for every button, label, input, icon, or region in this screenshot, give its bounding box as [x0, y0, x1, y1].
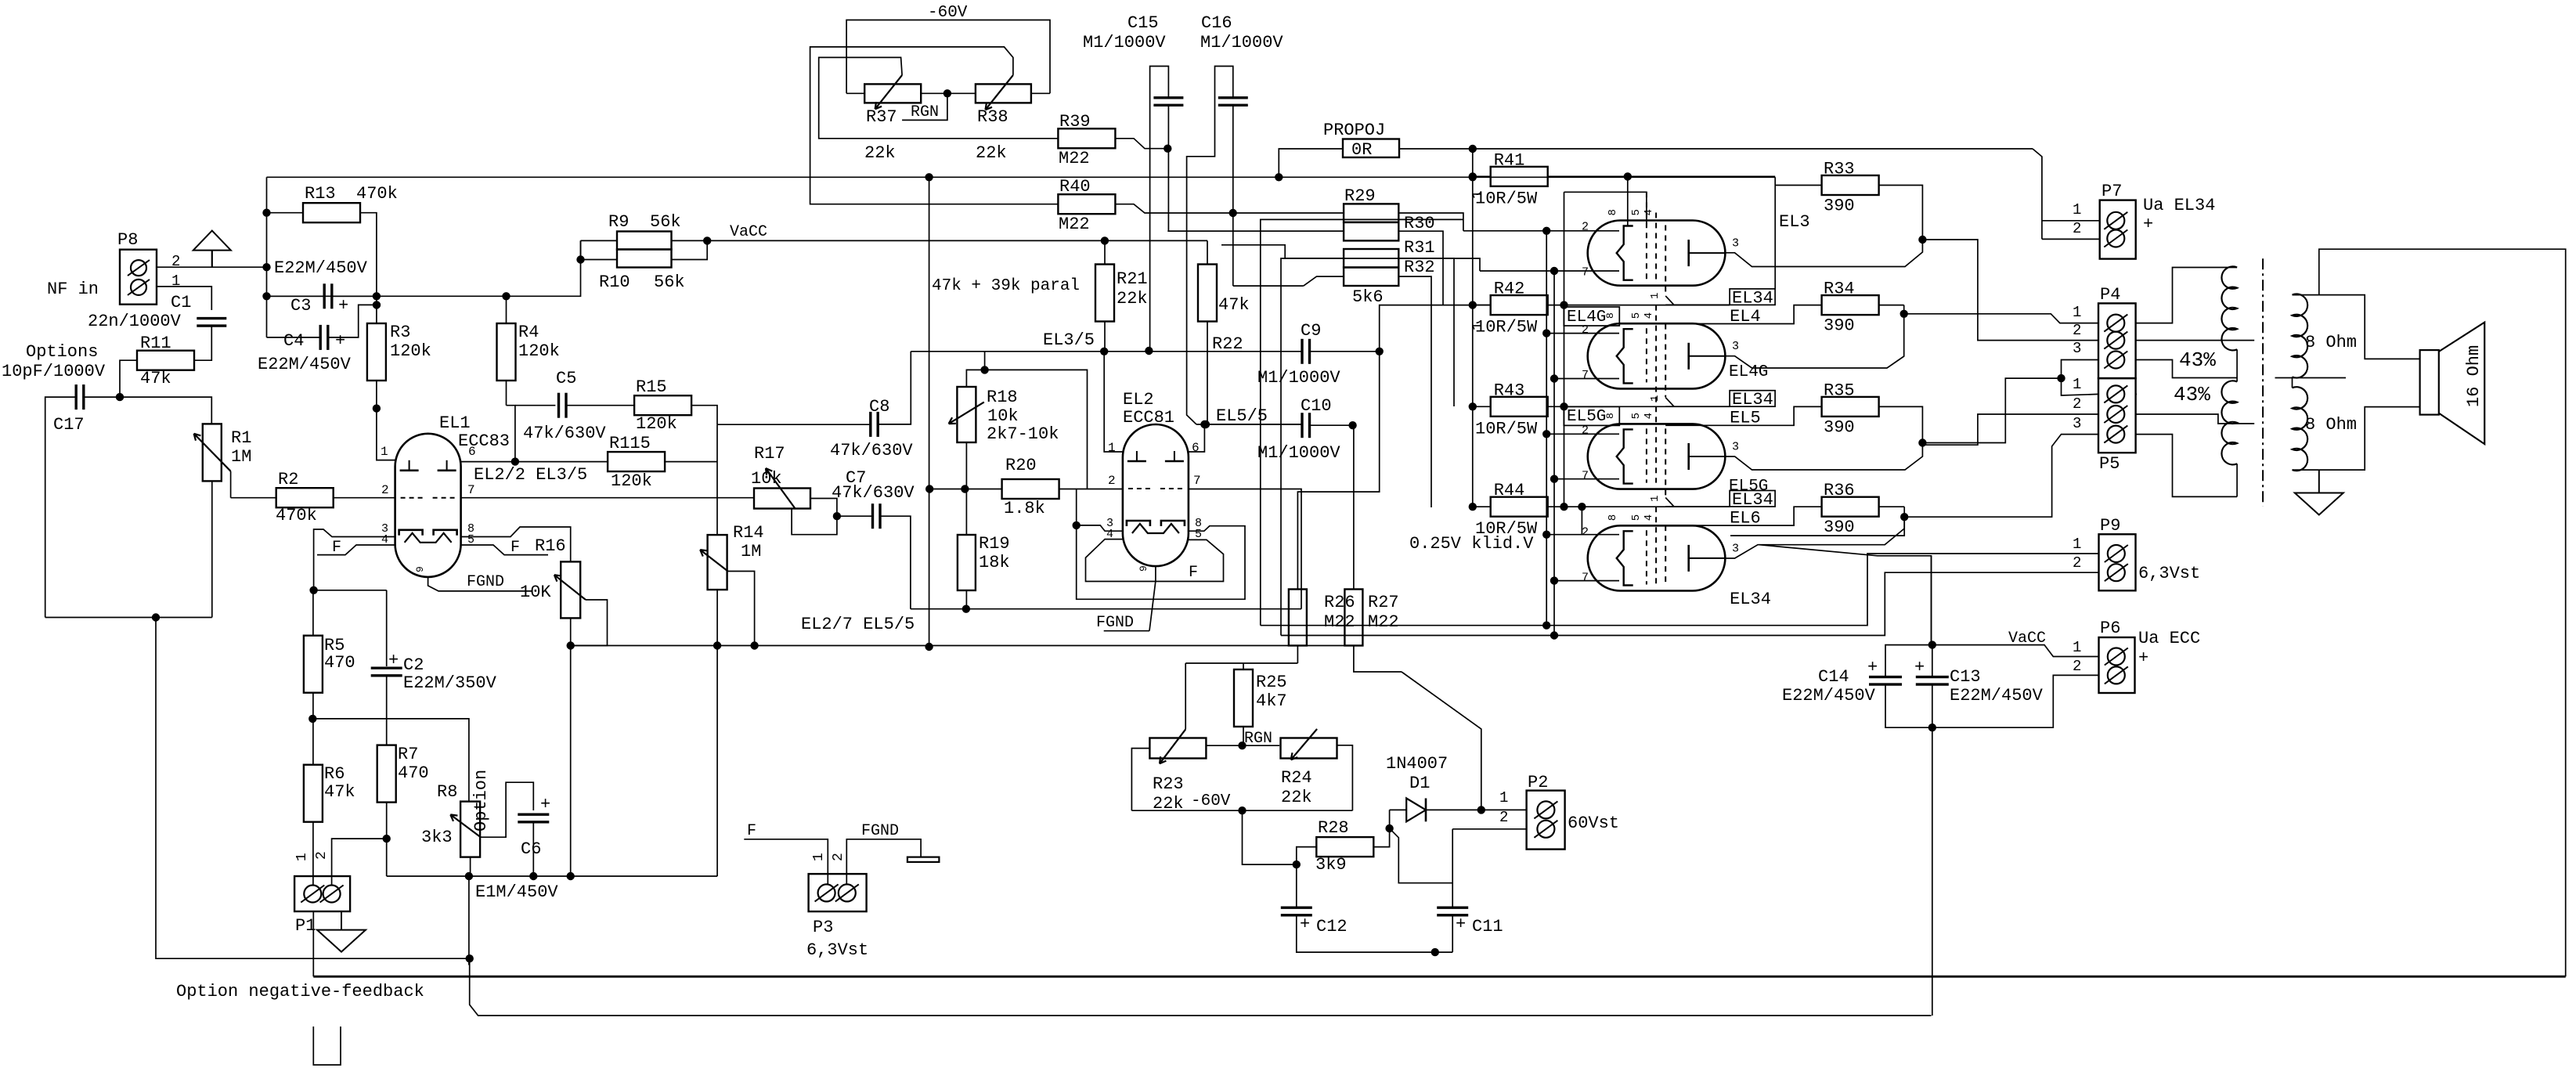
svg-text:22k: 22k	[1281, 788, 1312, 807]
wire node to R1	[120, 397, 211, 424]
svg-text:M1/1000V: M1/1000V	[1200, 33, 1283, 52]
resistor R6	[304, 765, 323, 822]
wire R13 right	[360, 213, 377, 297]
tube EL6 EL34	[1588, 525, 1726, 590]
resistor R36	[1822, 497, 1879, 517]
svg-text:47k: 47k	[324, 782, 355, 802]
svg-text:6,3Vst: 6,3Vst	[806, 940, 868, 960]
svg-text:M22: M22	[1059, 215, 1090, 234]
resistor R40	[1058, 194, 1115, 214]
svg-text:C1: C1	[171, 293, 191, 312]
svg-text:1M: 1M	[231, 447, 251, 467]
EL3 pin7 wire	[1480, 270, 1619, 272]
junction	[1901, 514, 1908, 521]
wire EL2 pin8 box	[1077, 525, 1245, 599]
connector P2	[1527, 791, 1565, 850]
svg-text:60Vst: 60Vst	[1568, 814, 1619, 833]
wire R32 right	[1398, 276, 1431, 507]
svg-text:22n/1000V: 22n/1000V	[88, 312, 182, 331]
potentiometer R23	[1149, 738, 1206, 759]
wire R27 bottom	[1354, 646, 1402, 672]
junction	[1239, 807, 1246, 814]
wire C5 left	[515, 405, 556, 406]
wire C16 to R32	[1233, 285, 1304, 287]
svg-text:R29: R29	[1344, 186, 1376, 206]
wire EL1 pin5 F	[461, 545, 548, 555]
svg-text:C12: C12	[1316, 917, 1348, 936]
svg-text:C14: C14	[1818, 667, 1849, 687]
svg-text:1: 1	[1649, 395, 1661, 402]
wire EL2 pin4 box	[1086, 539, 1224, 582]
capacitor C14	[1869, 676, 1902, 678]
svg-text:1: 1	[1108, 441, 1116, 455]
wire R34 right	[1879, 305, 1904, 306]
wire EL1 pin3	[314, 529, 395, 590]
svg-text:47k: 47k	[1218, 295, 1250, 315]
svg-text:10R/5W: 10R/5W	[1475, 419, 1538, 438]
wire C13 stem bottom	[1932, 685, 1933, 728]
junction	[1469, 173, 1476, 180]
wire EL2 pin1	[1104, 352, 1123, 452]
EL6 pin7 wire	[1554, 580, 1619, 582]
wire R30 right	[1398, 231, 1443, 305]
junction	[1624, 173, 1631, 180]
resistor R31	[1344, 249, 1398, 268]
junction	[1101, 237, 1108, 244]
junction	[1550, 632, 1557, 639]
svg-text:EL3: EL3	[1779, 212, 1810, 232]
wire R4 to pin6	[507, 406, 515, 462]
resistor R5	[304, 636, 323, 693]
resistor R10	[617, 250, 672, 268]
resistor R32	[1344, 268, 1398, 287]
wire P5-2 feed	[1924, 414, 2098, 445]
svg-text:2: 2	[831, 853, 846, 861]
wire P8 pin2	[157, 266, 267, 268]
svg-text:470k: 470k	[276, 506, 317, 525]
svg-text:47k/630V: 47k/630V	[832, 483, 915, 503]
svg-text:120k: 120k	[518, 341, 560, 361]
capacitor C9	[1301, 339, 1303, 364]
wire grid upper 1	[1665, 304, 1730, 305]
potentiometer R17	[754, 489, 810, 509]
svg-text:R40: R40	[1059, 177, 1091, 197]
svg-text:7: 7	[1193, 474, 1201, 488]
capacitor C13	[1916, 676, 1949, 678]
wire R40 right	[1115, 204, 1232, 213]
svg-text:3: 3	[1732, 237, 1739, 251]
junction	[1919, 439, 1926, 446]
wire R18 to pin1	[985, 370, 1088, 489]
connector P8	[120, 250, 157, 305]
svg-text:+: +	[1300, 915, 1310, 934]
B+ feed diag	[1759, 545, 1932, 645]
anode rail	[267, 176, 1776, 178]
wire R44 line	[1548, 506, 1730, 507]
svg-text:1N4007: 1N4007	[1386, 754, 1448, 774]
wire EL2 pin3	[1077, 525, 1123, 531]
wire node to R8	[312, 719, 469, 802]
resistor R9	[617, 232, 672, 250]
junction	[567, 642, 574, 649]
svg-text:R2: R2	[278, 470, 298, 489]
resistor R115	[608, 452, 665, 471]
junction	[833, 513, 840, 520]
P9 wire 2	[1281, 572, 2099, 635]
wire R1 wiper	[230, 471, 232, 498]
wire R41 line	[1548, 175, 1776, 177]
EL6 anode wire	[1725, 517, 1904, 558]
svg-text:M1/1000V: M1/1000V	[1083, 33, 1166, 52]
junction	[1431, 948, 1438, 955]
wire to P4-1	[1904, 314, 2098, 323]
svg-text:4: 4	[1643, 514, 1655, 521]
junction	[1919, 236, 1926, 243]
svg-text:2: 2	[2073, 220, 2081, 237]
wire R37 left	[846, 92, 864, 94]
potentiometer R1	[203, 424, 222, 481]
wire R22 top	[1207, 240, 1208, 264]
tube EL2	[1123, 424, 1189, 566]
wire B+ down	[1931, 556, 1932, 645]
capacitor C8	[869, 412, 871, 437]
wire C15 bottom	[1168, 105, 1344, 231]
resistor R28	[1316, 837, 1373, 857]
secondary bottom	[2293, 407, 2420, 471]
resistor R29	[1344, 204, 1398, 222]
wire R3 bottom	[376, 381, 377, 409]
junction	[373, 405, 380, 412]
wire C13 to bus	[1932, 727, 1933, 1016]
svg-text:ECC81: ECC81	[1123, 408, 1174, 428]
jumper P4-3 P5-1	[2062, 360, 2099, 396]
wire grid upper 2	[1665, 406, 1730, 407]
wire C3C4 left	[266, 213, 268, 337]
svg-text:7: 7	[1582, 469, 1589, 482]
svg-text:R23: R23	[1153, 774, 1184, 794]
wire rail to R9R10	[507, 240, 581, 296]
grid g3 dash EL4	[1665, 324, 1666, 398]
svg-text:Options: Options	[26, 342, 98, 362]
wire C16 top	[1187, 67, 1233, 425]
svg-text:8 Ohm: 8 Ohm	[2305, 333, 2357, 352]
svg-text:390: 390	[1824, 417, 1855, 437]
wire to P4-2	[1922, 240, 2098, 341]
capacitor C16	[1218, 96, 1248, 99]
svg-text:1: 1	[2073, 376, 2081, 393]
svg-text:PROPOJ: PROPOJ	[1323, 121, 1385, 140]
wire R15 right	[691, 406, 717, 425]
wire R31 right	[1398, 258, 1454, 406]
FGND underline	[1104, 630, 1149, 632]
svg-text:C5: C5	[556, 369, 576, 388]
capacitor C10	[1301, 413, 1303, 438]
junction bus	[713, 642, 720, 649]
resistor R3	[367, 323, 386, 381]
svg-text:-60V: -60V	[1191, 792, 1231, 810]
wire R42 line	[1548, 305, 1730, 306]
wire R29 right	[1398, 213, 1463, 231]
wire EL5 to jumper	[1922, 378, 2061, 442]
wire C10 right	[1309, 424, 1352, 426]
capacitor C3	[323, 283, 326, 308]
svg-text:Option negative-feedback: Option negative-feedback	[176, 982, 424, 1001]
box EL34 label 2	[1730, 391, 1775, 407]
bottom node wire	[387, 875, 718, 877]
wire C7 left	[837, 515, 873, 517]
svg-text:5: 5	[1630, 312, 1643, 319]
wire C4 left	[267, 337, 321, 338]
wire zig C11	[1390, 828, 1453, 883]
wire R16 bottom	[570, 619, 572, 646]
svg-text:C8: C8	[869, 397, 889, 417]
wire EL2 pin6	[1189, 424, 1205, 452]
wire D1 to P2 pin1	[1481, 809, 1527, 810]
wire R24 right	[1337, 745, 1353, 810]
svg-text:EL5G: EL5G	[1567, 408, 1606, 426]
wire R9 right	[672, 240, 708, 241]
svg-text:R44: R44	[1494, 481, 1525, 500]
svg-text:10R/5W: 10R/5W	[1475, 189, 1538, 208]
svg-text:R18: R18	[987, 388, 1018, 407]
wire C12 bottom	[1297, 916, 1452, 952]
junction	[263, 209, 270, 216]
wire EL2 pin9	[1149, 566, 1156, 631]
cathode drop EL3	[1627, 176, 1629, 226]
open box option	[313, 1027, 341, 1065]
wire P5-2 to tap	[2136, 414, 2255, 424]
wire R16 long down	[570, 647, 572, 876]
svg-text:1: 1	[2073, 639, 2081, 656]
EL6 R44 drop	[1581, 507, 1582, 535]
resistor R34	[1822, 295, 1879, 315]
wire EL1 pin4 F	[317, 545, 395, 555]
svg-text:+: +	[1914, 658, 1925, 677]
resistor R30	[1344, 222, 1398, 241]
wire C11 top	[1452, 883, 1453, 907]
svg-text:22k: 22k	[976, 143, 1007, 163]
junction	[943, 90, 951, 97]
svg-text:RGN: RGN	[911, 103, 939, 121]
svg-text:EL34: EL34	[1732, 390, 1773, 410]
secondary tap	[2275, 377, 2347, 379]
EL3 anode wire	[1725, 240, 1922, 267]
svg-text:1: 1	[381, 445, 388, 459]
wire R41 left	[1473, 175, 1491, 177]
svg-text:3: 3	[1732, 340, 1739, 353]
potentiometer R14	[708, 535, 727, 590]
svg-text:8: 8	[1604, 312, 1616, 319]
junction	[263, 293, 270, 300]
primary coil A	[2221, 266, 2237, 350]
tube EL1	[395, 434, 461, 577]
secondary top	[2293, 295, 2420, 359]
junction	[1550, 375, 1557, 382]
wire R26 bottom	[1297, 646, 1298, 663]
wire pin3 drop	[1076, 489, 1077, 525]
VaCC to R22	[1105, 240, 1207, 241]
svg-text:5: 5	[1630, 209, 1643, 215]
junction	[1543, 330, 1550, 337]
svg-text:22k: 22k	[1117, 289, 1148, 308]
wire R115 right	[665, 461, 717, 463]
junction	[503, 293, 510, 300]
wire C15 top	[1150, 67, 1169, 352]
grid g2 dash EL6	[1655, 507, 1657, 584]
svg-text:M22: M22	[1368, 612, 1399, 632]
resistor R22	[1198, 265, 1217, 322]
junction	[1900, 310, 1907, 317]
svg-text:10k: 10k	[751, 469, 782, 489]
svg-text:E22M/450V: E22M/450V	[1782, 686, 1876, 705]
connector P1	[294, 876, 350, 911]
wire C7 right	[880, 516, 911, 609]
wire EL1 pin6	[461, 461, 515, 463]
wire R38 right	[1031, 92, 1050, 94]
grid g2 dash EL4	[1655, 305, 1657, 407]
EL4 anode wire	[1725, 314, 1903, 368]
wire R10 right	[672, 240, 708, 259]
capacitor C17	[74, 384, 77, 410]
svg-text:EL34: EL34	[1730, 590, 1771, 609]
svg-text:5: 5	[1630, 514, 1643, 521]
resistor R41	[1491, 167, 1548, 186]
junction	[1469, 174, 1476, 181]
grid g1 dash EL5	[1646, 428, 1647, 482]
wire F P3	[744, 839, 828, 885]
junction	[511, 458, 518, 465]
svg-text:4: 4	[1643, 312, 1655, 319]
antenna symbol	[193, 231, 231, 251]
svg-text:2: 2	[314, 851, 330, 860]
wire R11 left	[120, 360, 137, 397]
svg-text:2: 2	[2073, 658, 2081, 675]
svg-text:EL2: EL2	[1123, 390, 1154, 410]
svg-text:C2: C2	[403, 655, 424, 675]
svg-text:47k/630V: 47k/630V	[830, 441, 913, 460]
svg-text:P7: P7	[2102, 182, 2122, 201]
main rail	[267, 295, 507, 297]
resistor R13	[303, 203, 360, 222]
wire R21 top	[1104, 240, 1106, 264]
svg-text:R21: R21	[1117, 269, 1148, 289]
wire R18 bottom	[965, 443, 967, 479]
wire R17 right	[810, 499, 837, 517]
capacitor C4	[319, 325, 322, 350]
wire C1 bottom	[194, 326, 212, 360]
wire C5 right	[566, 405, 634, 406]
wire C17 right	[84, 396, 120, 398]
grid g1 dash EL6	[1646, 530, 1647, 584]
ladder top hook	[1564, 192, 1647, 225]
junction	[465, 872, 472, 879]
svg-text:390: 390	[1824, 316, 1855, 336]
svg-text:C9: C9	[1301, 321, 1321, 341]
box EL34 label 1	[1730, 289, 1775, 305]
svg-text:M1/1000V: M1/1000V	[1257, 368, 1340, 388]
feedback wire bottom	[156, 615, 470, 958]
svg-text:1: 1	[2073, 201, 2081, 218]
svg-text:M1/1000V: M1/1000V	[1257, 443, 1340, 463]
potentiometer R18	[957, 387, 976, 442]
tube EL5 EL34	[1588, 424, 1726, 489]
resistor R26	[1289, 590, 1307, 646]
wire R43 line	[1548, 406, 1730, 407]
wire C16 bottom	[1232, 105, 1234, 286]
svg-text:10K: 10K	[520, 583, 551, 602]
grid bus	[571, 645, 1362, 647]
resistor R42	[1491, 295, 1548, 315]
connector P3	[809, 874, 867, 911]
svg-text:R38: R38	[977, 107, 1008, 127]
wire rail drop	[929, 177, 930, 489]
ladder vertical	[1564, 192, 1565, 507]
heater bus B	[1553, 271, 1555, 636]
wire P7 pin2	[2042, 238, 2100, 240]
potentiometer R16	[561, 561, 580, 618]
svg-text:47k: 47k	[140, 369, 171, 388]
svg-text:120k: 120k	[390, 341, 431, 361]
wire R5 top	[312, 590, 314, 636]
svg-text:F: F	[511, 539, 520, 557]
wire R36 dot	[1903, 507, 1905, 517]
svg-text:P4: P4	[2100, 285, 2120, 305]
capacitor C5	[557, 393, 560, 418]
grid g2 dash EL3	[1655, 213, 1657, 280]
wire R28 left	[1297, 847, 1317, 865]
svg-text:3: 3	[1732, 440, 1739, 453]
svg-text:VaCC: VaCC	[730, 223, 767, 241]
wire R44 left	[1473, 506, 1491, 507]
junction	[926, 485, 933, 493]
svg-text:1: 1	[2073, 304, 2081, 321]
ground secondary	[2318, 470, 2320, 493]
svg-text:R15: R15	[636, 377, 667, 397]
wire C10 to R27	[1353, 425, 1355, 589]
wire R29 left	[1233, 212, 1344, 214]
svg-text:9: 9	[1138, 565, 1149, 572]
resistor R7	[377, 745, 396, 803]
wire rail drop 2	[929, 489, 930, 648]
svg-text:F: F	[747, 822, 756, 840]
svg-text:R11: R11	[140, 334, 171, 353]
svg-text:P1: P1	[295, 916, 316, 936]
wire R43 left	[1473, 406, 1491, 407]
wire R33 left	[1775, 185, 1821, 186]
wire R38 wiper loop	[810, 47, 1059, 204]
wire C9 to R42line	[1380, 305, 1491, 352]
wire R8 wiper	[481, 782, 533, 837]
wire C2 bottom	[386, 676, 388, 745]
resistor R25	[1234, 669, 1253, 727]
svg-text:R42: R42	[1494, 280, 1525, 299]
wire P1 pin1 down	[312, 911, 314, 976]
svg-text:EL2/2 EL3/5: EL2/2 EL3/5	[474, 465, 587, 485]
svg-text:18k: 18k	[979, 553, 1010, 572]
junction	[925, 174, 933, 181]
EL5 pin2 wire	[1546, 433, 1619, 435]
svg-text:1M: 1M	[741, 542, 761, 561]
svg-text:2: 2	[2073, 322, 2081, 339]
wire P4-1 to coil	[2136, 268, 2238, 323]
svg-text:+: +	[335, 331, 345, 351]
NFB option bus	[313, 976, 2565, 978]
junction	[1201, 420, 1208, 428]
NFB takeoff	[2319, 249, 2566, 976]
box EL34 label 3	[1730, 491, 1775, 507]
svg-text:R24: R24	[1281, 768, 1312, 788]
potentiometer R24	[1281, 738, 1337, 759]
